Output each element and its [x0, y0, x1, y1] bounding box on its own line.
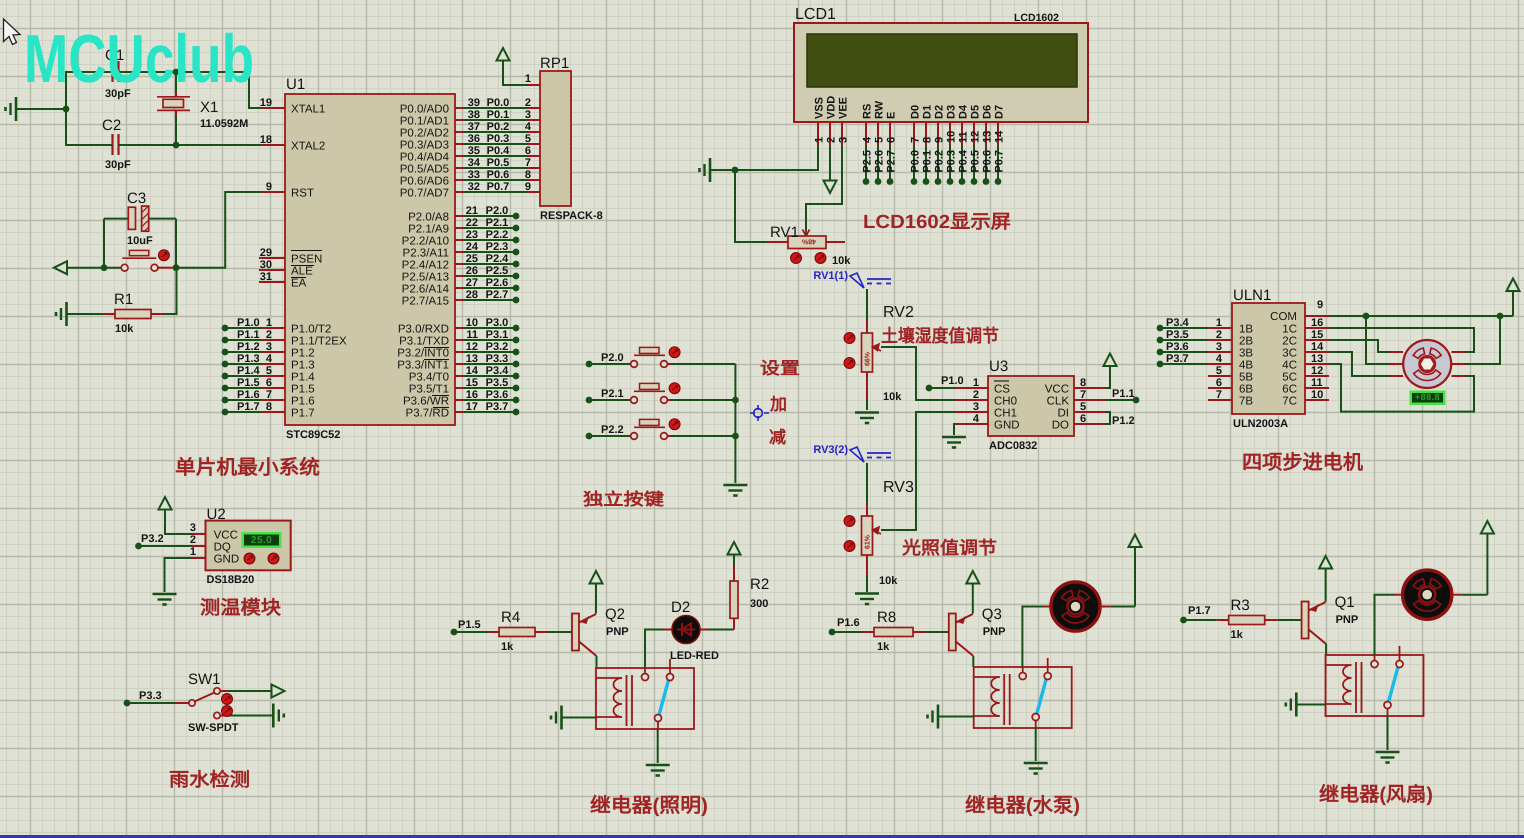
svg-text:CS: CS [994, 384, 1010, 396]
svg-text:3: 3 [838, 137, 850, 143]
svg-text:U2: U2 [207, 506, 226, 523]
svg-text:5B: 5B [1239, 372, 1253, 384]
svg-text:10: 10 [946, 131, 958, 143]
svg-text:测温模块: 测温模块 [200, 597, 282, 619]
svg-text:1: 1 [1216, 317, 1222, 329]
svg-text:P3.4: P3.4 [1166, 317, 1190, 329]
svg-text:PNP: PNP [983, 626, 1006, 638]
svg-text:25.0: 25.0 [251, 535, 272, 546]
svg-text:66%: 66% [865, 351, 872, 366]
svg-text:P0.1: P0.1 [922, 150, 934, 173]
svg-text:R3: R3 [1231, 597, 1250, 614]
svg-text:33: 33 [468, 169, 480, 181]
svg-text:16: 16 [466, 389, 478, 401]
svg-text:7: 7 [266, 389, 272, 401]
svg-text:P3.7: P3.7 [1166, 353, 1189, 365]
svg-text:四项步进电机: 四项步进电机 [1242, 451, 1363, 474]
svg-text:3B: 3B [1239, 348, 1253, 360]
svg-text:ADC0832: ADC0832 [989, 440, 1037, 452]
svg-text:14: 14 [466, 365, 479, 377]
svg-text:5: 5 [874, 137, 886, 143]
svg-text:P1.2: P1.2 [291, 348, 315, 360]
svg-text:D5: D5 [970, 105, 982, 119]
svg-text:VSS: VSS [814, 97, 826, 119]
svg-text:Q1: Q1 [1335, 594, 1355, 611]
svg-text:P1.6: P1.6 [837, 617, 860, 629]
svg-text:VEE: VEE [838, 97, 850, 119]
svg-text:继电器(照明): 继电器(照明) [590, 794, 708, 817]
svg-text:ULN1: ULN1 [1233, 287, 1271, 304]
svg-text:P3.6/WR: P3.6/WR [403, 396, 449, 408]
svg-text:4: 4 [266, 353, 273, 365]
svg-text:P1.0: P1.0 [941, 375, 964, 387]
svg-text:3C: 3C [1282, 348, 1297, 360]
svg-text:LCD1602显示屏: LCD1602显示屏 [863, 212, 1011, 233]
svg-text:RV3: RV3 [883, 479, 914, 496]
svg-text:61%: 61% [865, 534, 872, 549]
svg-text:22: 22 [466, 217, 478, 229]
svg-text:P0.2: P0.2 [487, 121, 510, 133]
svg-text:9: 9 [1317, 299, 1323, 311]
svg-text:30pF: 30pF [105, 159, 131, 171]
svg-text:P2.7/A15: P2.7/A15 [402, 296, 449, 308]
svg-text:+88.8: +88.8 [1415, 392, 1440, 402]
svg-text:土壤湿度值调节: 土壤湿度值调节 [881, 326, 999, 346]
svg-text:P2.1: P2.1 [486, 217, 509, 229]
svg-text:19: 19 [260, 97, 272, 109]
svg-text:39: 39 [468, 97, 480, 109]
svg-text:ULN2003A: ULN2003A [1233, 418, 1288, 430]
svg-text:37: 37 [468, 121, 480, 133]
svg-text:VCC: VCC [214, 530, 238, 542]
svg-text:13: 13 [466, 353, 478, 365]
svg-text:4: 4 [1216, 353, 1223, 365]
svg-text:RW: RW [874, 100, 886, 119]
svg-text:7: 7 [910, 137, 922, 143]
svg-text:7C: 7C [1282, 396, 1297, 408]
svg-text:P2.5: P2.5 [862, 150, 874, 173]
svg-text:13: 13 [982, 131, 994, 143]
svg-text:10k: 10k [879, 575, 898, 587]
svg-text:P1.3: P1.3 [291, 360, 315, 372]
svg-text:D3: D3 [946, 105, 958, 119]
svg-text:PNP: PNP [606, 626, 629, 638]
svg-text:P1.7: P1.7 [237, 401, 260, 413]
svg-text:P1.5: P1.5 [237, 377, 260, 389]
svg-text:4: 4 [973, 413, 980, 425]
svg-text:300: 300 [750, 598, 768, 610]
svg-text:7: 7 [1216, 389, 1222, 401]
svg-text:LED-RED: LED-RED [670, 650, 719, 662]
svg-text:5C: 5C [1282, 372, 1297, 384]
svg-text:P2.0: P2.0 [601, 352, 624, 364]
svg-text:RP1: RP1 [540, 55, 569, 72]
svg-text:P3.1: P3.1 [486, 329, 509, 341]
svg-text:P2.6/A14: P2.6/A14 [402, 284, 450, 296]
svg-text:P0.1: P0.1 [487, 109, 510, 121]
svg-text:18: 18 [260, 134, 272, 146]
svg-text:6: 6 [266, 377, 272, 389]
svg-text:XTAL2: XTAL2 [291, 141, 325, 153]
svg-text:P0.2: P0.2 [934, 150, 946, 173]
svg-text:D2: D2 [934, 105, 946, 119]
svg-text:P1.5: P1.5 [291, 384, 315, 396]
svg-text:14: 14 [994, 130, 1006, 143]
svg-text:COM: COM [1270, 311, 1297, 323]
svg-text:P3.6: P3.6 [486, 389, 509, 401]
svg-text:P0.5: P0.5 [970, 150, 982, 173]
svg-text:P3.7/RD: P3.7/RD [406, 408, 449, 420]
svg-text:P0.7/AD7: P0.7/AD7 [400, 188, 449, 200]
svg-text:P0.1/AD1: P0.1/AD1 [400, 116, 449, 128]
svg-text:2: 2 [826, 137, 838, 143]
svg-text:P1.0: P1.0 [237, 317, 260, 329]
svg-text:D1: D1 [922, 105, 934, 119]
svg-text:P0.3: P0.3 [487, 133, 510, 145]
svg-text:RST: RST [291, 188, 314, 200]
svg-text:P3.4/T0: P3.4/T0 [409, 372, 449, 384]
svg-text:P0.6/AD6: P0.6/AD6 [400, 176, 449, 188]
svg-text:独立按键: 独立按键 [583, 490, 664, 509]
svg-text:12: 12 [1311, 365, 1323, 377]
svg-text:P0.4: P0.4 [487, 145, 511, 157]
svg-text:RV2: RV2 [883, 304, 914, 321]
svg-text:13: 13 [1311, 353, 1323, 365]
svg-text:XTAL1: XTAL1 [291, 104, 325, 116]
svg-text:P0.7: P0.7 [487, 181, 510, 193]
svg-text:P0.7: P0.7 [994, 150, 1006, 173]
svg-text:P0.6: P0.6 [982, 150, 994, 173]
svg-text:35: 35 [468, 145, 480, 157]
svg-text:CLK: CLK [1047, 396, 1070, 408]
svg-text:D4: D4 [958, 104, 970, 119]
svg-text:P1.6: P1.6 [237, 389, 260, 401]
svg-text:P3.5/T1: P3.5/T1 [409, 384, 449, 396]
svg-text:STC89C52: STC89C52 [286, 429, 340, 441]
svg-text:P3.5: P3.5 [486, 377, 509, 389]
svg-text:P2.4/A12: P2.4/A12 [402, 260, 449, 272]
svg-text:8: 8 [1080, 377, 1086, 389]
svg-text:雨水检测: 雨水检测 [169, 769, 250, 791]
svg-text:2C: 2C [1282, 336, 1297, 348]
svg-text:CH1: CH1 [994, 408, 1017, 420]
svg-text:P3.0/RXD: P3.0/RXD [398, 324, 449, 336]
svg-text:5: 5 [266, 365, 272, 377]
svg-text:GND: GND [994, 420, 1020, 432]
svg-text:23: 23 [466, 229, 478, 241]
svg-text:P1.4: P1.4 [237, 365, 261, 377]
svg-text:9: 9 [525, 181, 531, 193]
svg-text:P3.2/INT0: P3.2/INT0 [397, 348, 449, 360]
svg-text:加: 加 [769, 395, 787, 414]
svg-text:D7: D7 [994, 105, 1006, 119]
svg-text:6B: 6B [1239, 384, 1253, 396]
svg-text:12: 12 [466, 341, 478, 353]
svg-text:R4: R4 [501, 609, 520, 626]
svg-text:P2.1/A9: P2.1/A9 [408, 224, 449, 236]
svg-text:P2.5: P2.5 [486, 265, 509, 277]
svg-text:P2.0/A8: P2.0/A8 [408, 212, 449, 224]
svg-text:RS: RS [862, 104, 874, 119]
svg-text:4: 4 [525, 121, 532, 133]
svg-text:17: 17 [466, 401, 478, 413]
svg-text:5: 5 [525, 133, 531, 145]
svg-text:27: 27 [466, 277, 478, 289]
svg-text:11: 11 [1311, 377, 1323, 389]
svg-text:P1.1/T2EX: P1.1/T2EX [291, 336, 347, 348]
svg-text:30: 30 [260, 259, 272, 271]
svg-text:P2.6: P2.6 [874, 150, 886, 173]
svg-text:R1: R1 [114, 291, 133, 308]
svg-text:VDD: VDD [826, 96, 838, 119]
svg-text:SW-SPDT: SW-SPDT [188, 722, 239, 734]
svg-text:P1.1: P1.1 [237, 329, 260, 341]
svg-text:P0.4/AD4: P0.4/AD4 [400, 152, 450, 164]
svg-text:2: 2 [1216, 329, 1222, 341]
svg-text:GND: GND [214, 554, 240, 566]
svg-text:10k: 10k [115, 323, 134, 335]
svg-text:P0.4: P0.4 [958, 149, 970, 173]
svg-text:P3.4: P3.4 [486, 365, 510, 377]
svg-text:U1: U1 [286, 76, 305, 93]
svg-text:38: 38 [468, 109, 480, 121]
svg-text:1: 1 [814, 137, 826, 143]
svg-text:P3.6: P3.6 [1166, 341, 1189, 353]
svg-text:15: 15 [1311, 329, 1323, 341]
svg-text:P1.4: P1.4 [291, 372, 315, 384]
svg-text:14: 14 [1311, 341, 1324, 353]
svg-text:单片机最小系统: 单片机最小系统 [175, 456, 320, 479]
svg-text:SW1: SW1 [188, 671, 221, 688]
svg-text:1k: 1k [1231, 629, 1244, 641]
svg-text:P3.3: P3.3 [139, 690, 162, 702]
svg-text:5: 5 [1216, 365, 1222, 377]
svg-text:11: 11 [958, 131, 970, 143]
svg-text:E: E [886, 112, 898, 119]
svg-text:D0: D0 [910, 105, 922, 119]
svg-text:继电器(风扇): 继电器(风扇) [1319, 783, 1433, 806]
svg-text:P1.5: P1.5 [458, 619, 481, 631]
svg-text:21: 21 [466, 205, 478, 217]
svg-text:1C: 1C [1282, 324, 1297, 336]
svg-text:DO: DO [1052, 420, 1069, 432]
svg-text:P3.3/INT1: P3.3/INT1 [397, 360, 449, 372]
svg-text:36: 36 [468, 133, 480, 145]
svg-text:6C: 6C [1282, 384, 1297, 396]
svg-text:设置: 设置 [760, 359, 800, 378]
svg-text:7B: 7B [1239, 396, 1253, 408]
svg-text:P3.7: P3.7 [486, 401, 509, 413]
svg-text:1: 1 [190, 546, 196, 558]
svg-text:光照值调节: 光照值调节 [901, 538, 997, 558]
svg-text:R8: R8 [877, 609, 896, 626]
svg-text:P2.5/A13: P2.5/A13 [402, 272, 449, 284]
svg-text:5: 5 [1080, 401, 1086, 413]
svg-text:11.0592M: 11.0592M [200, 118, 248, 130]
svg-text:3: 3 [973, 401, 979, 413]
svg-text:Q2: Q2 [605, 606, 625, 623]
svg-text:P2.1: P2.1 [601, 388, 624, 400]
svg-text:P3.0: P3.0 [486, 317, 509, 329]
svg-text:VCC: VCC [1045, 384, 1069, 396]
svg-text:DQ: DQ [214, 542, 231, 554]
svg-text:P0.0: P0.0 [487, 97, 510, 109]
svg-text:6: 6 [1080, 413, 1086, 425]
svg-text:EA: EA [291, 278, 307, 290]
svg-text:P3.3: P3.3 [486, 353, 509, 365]
svg-text:3: 3 [525, 109, 531, 121]
svg-text:1: 1 [266, 317, 272, 329]
svg-text:P0.0/AD0: P0.0/AD0 [400, 104, 449, 116]
svg-text:32: 32 [468, 181, 480, 193]
svg-text:10k: 10k [883, 391, 902, 403]
svg-text:34: 34 [468, 157, 481, 169]
svg-text:4C: 4C [1282, 360, 1297, 372]
svg-text:X1: X1 [200, 99, 218, 116]
svg-text:2: 2 [973, 389, 979, 401]
svg-text:ALE: ALE [291, 266, 313, 278]
svg-text:24: 24 [466, 241, 479, 253]
svg-text:P3.2: P3.2 [141, 533, 164, 545]
svg-text:15: 15 [466, 377, 478, 389]
svg-text:P1.0/T2: P1.0/T2 [291, 324, 331, 336]
svg-text:DS18B20: DS18B20 [207, 574, 255, 586]
svg-text:CH0: CH0 [994, 396, 1017, 408]
svg-text:P1.3: P1.3 [237, 353, 260, 365]
svg-text:P2.0: P2.0 [486, 205, 509, 217]
svg-text:10uF: 10uF [127, 235, 153, 247]
svg-text:P1.7: P1.7 [291, 408, 315, 420]
svg-text:PSEN: PSEN [291, 254, 322, 266]
svg-text:P1.2: P1.2 [1112, 415, 1135, 427]
svg-text:7: 7 [525, 157, 531, 169]
svg-text:P0.5: P0.5 [487, 157, 510, 169]
svg-text:11: 11 [466, 329, 478, 341]
svg-text:2B: 2B [1239, 336, 1253, 348]
svg-text:6: 6 [1216, 377, 1222, 389]
svg-text:7: 7 [1080, 389, 1086, 401]
svg-text:RV1(1): RV1(1) [813, 270, 848, 282]
svg-text:P1.6: P1.6 [291, 396, 315, 408]
svg-text:C3: C3 [127, 190, 146, 207]
svg-text:P2.3/A11: P2.3/A11 [403, 248, 449, 260]
svg-text:U3: U3 [989, 358, 1008, 375]
svg-text:P2.2: P2.2 [486, 229, 509, 241]
svg-text:P2.4: P2.4 [486, 253, 510, 265]
svg-text:26: 26 [466, 265, 478, 277]
svg-text:P2.2: P2.2 [601, 424, 624, 436]
svg-text:8: 8 [266, 401, 272, 413]
svg-text:1B: 1B [1239, 324, 1253, 336]
svg-text:P2.6: P2.6 [486, 277, 509, 289]
svg-text:31: 31 [260, 271, 272, 283]
svg-text:P3.1/TXD: P3.1/TXD [399, 336, 449, 348]
svg-text:P1.2: P1.2 [237, 341, 260, 353]
svg-text:P0.3/AD3: P0.3/AD3 [400, 140, 449, 152]
svg-text:P0.0: P0.0 [910, 150, 922, 173]
svg-text:28: 28 [466, 289, 478, 301]
svg-text:25: 25 [466, 253, 478, 265]
svg-text:LCD1602: LCD1602 [1014, 12, 1059, 24]
svg-text:LCD1: LCD1 [795, 6, 836, 23]
svg-text:12: 12 [970, 131, 982, 143]
svg-text:4B: 4B [1239, 360, 1253, 372]
svg-text:2: 2 [525, 97, 531, 109]
svg-text:P3.2: P3.2 [486, 341, 509, 353]
svg-text:2: 2 [266, 329, 272, 341]
svg-text:10: 10 [466, 317, 478, 329]
svg-text:6: 6 [525, 145, 531, 157]
svg-text:D2: D2 [671, 599, 690, 616]
svg-text:P2.2/A10: P2.2/A10 [402, 236, 449, 248]
svg-text:RESPACK-8: RESPACK-8 [540, 210, 603, 222]
svg-text:P1.7: P1.7 [1188, 605, 1211, 617]
svg-text:3: 3 [1216, 341, 1222, 353]
svg-text:C2: C2 [102, 117, 121, 134]
svg-text:29: 29 [260, 247, 272, 259]
svg-text:R2: R2 [750, 576, 769, 593]
svg-text:8: 8 [525, 169, 531, 181]
svg-text:1: 1 [973, 377, 979, 389]
svg-text:16: 16 [1311, 317, 1323, 329]
svg-text:P2.7: P2.7 [886, 150, 898, 173]
svg-text:MCUclub: MCUclub [24, 21, 254, 97]
svg-text:4: 4 [862, 136, 874, 143]
svg-text:10: 10 [1311, 389, 1323, 401]
svg-text:D6: D6 [982, 105, 994, 119]
svg-text:RV3(2): RV3(2) [813, 444, 848, 456]
svg-text:9: 9 [266, 181, 272, 193]
svg-text:继电器(水泵): 继电器(水泵) [965, 794, 1080, 817]
svg-text:P2.3: P2.3 [486, 241, 509, 253]
svg-text:P1.1: P1.1 [1112, 388, 1135, 400]
svg-text:1: 1 [525, 73, 531, 85]
svg-text:RV1: RV1 [770, 224, 799, 241]
svg-text:2: 2 [190, 534, 196, 546]
svg-text:P0.6: P0.6 [487, 169, 510, 181]
svg-text:DI: DI [1058, 408, 1070, 420]
svg-text:9: 9 [934, 137, 946, 143]
svg-text:6: 6 [886, 137, 898, 143]
svg-text:P2.7: P2.7 [486, 289, 509, 301]
svg-text:1k: 1k [877, 641, 890, 653]
svg-text:3: 3 [266, 341, 272, 353]
svg-text:48%: 48% [801, 238, 816, 245]
svg-text:P3.5: P3.5 [1166, 329, 1189, 341]
svg-text:P0.5/AD5: P0.5/AD5 [400, 164, 449, 176]
svg-text:1k: 1k [501, 641, 514, 653]
svg-text:Q3: Q3 [982, 606, 1002, 623]
svg-text:减: 减 [769, 428, 786, 447]
svg-text:10k: 10k [832, 255, 851, 267]
svg-text:P0.3: P0.3 [946, 150, 958, 173]
svg-text:3: 3 [190, 522, 196, 534]
svg-text:P0.2/AD2: P0.2/AD2 [400, 128, 449, 140]
svg-text:PNP: PNP [1336, 614, 1359, 626]
svg-text:8: 8 [922, 137, 934, 143]
